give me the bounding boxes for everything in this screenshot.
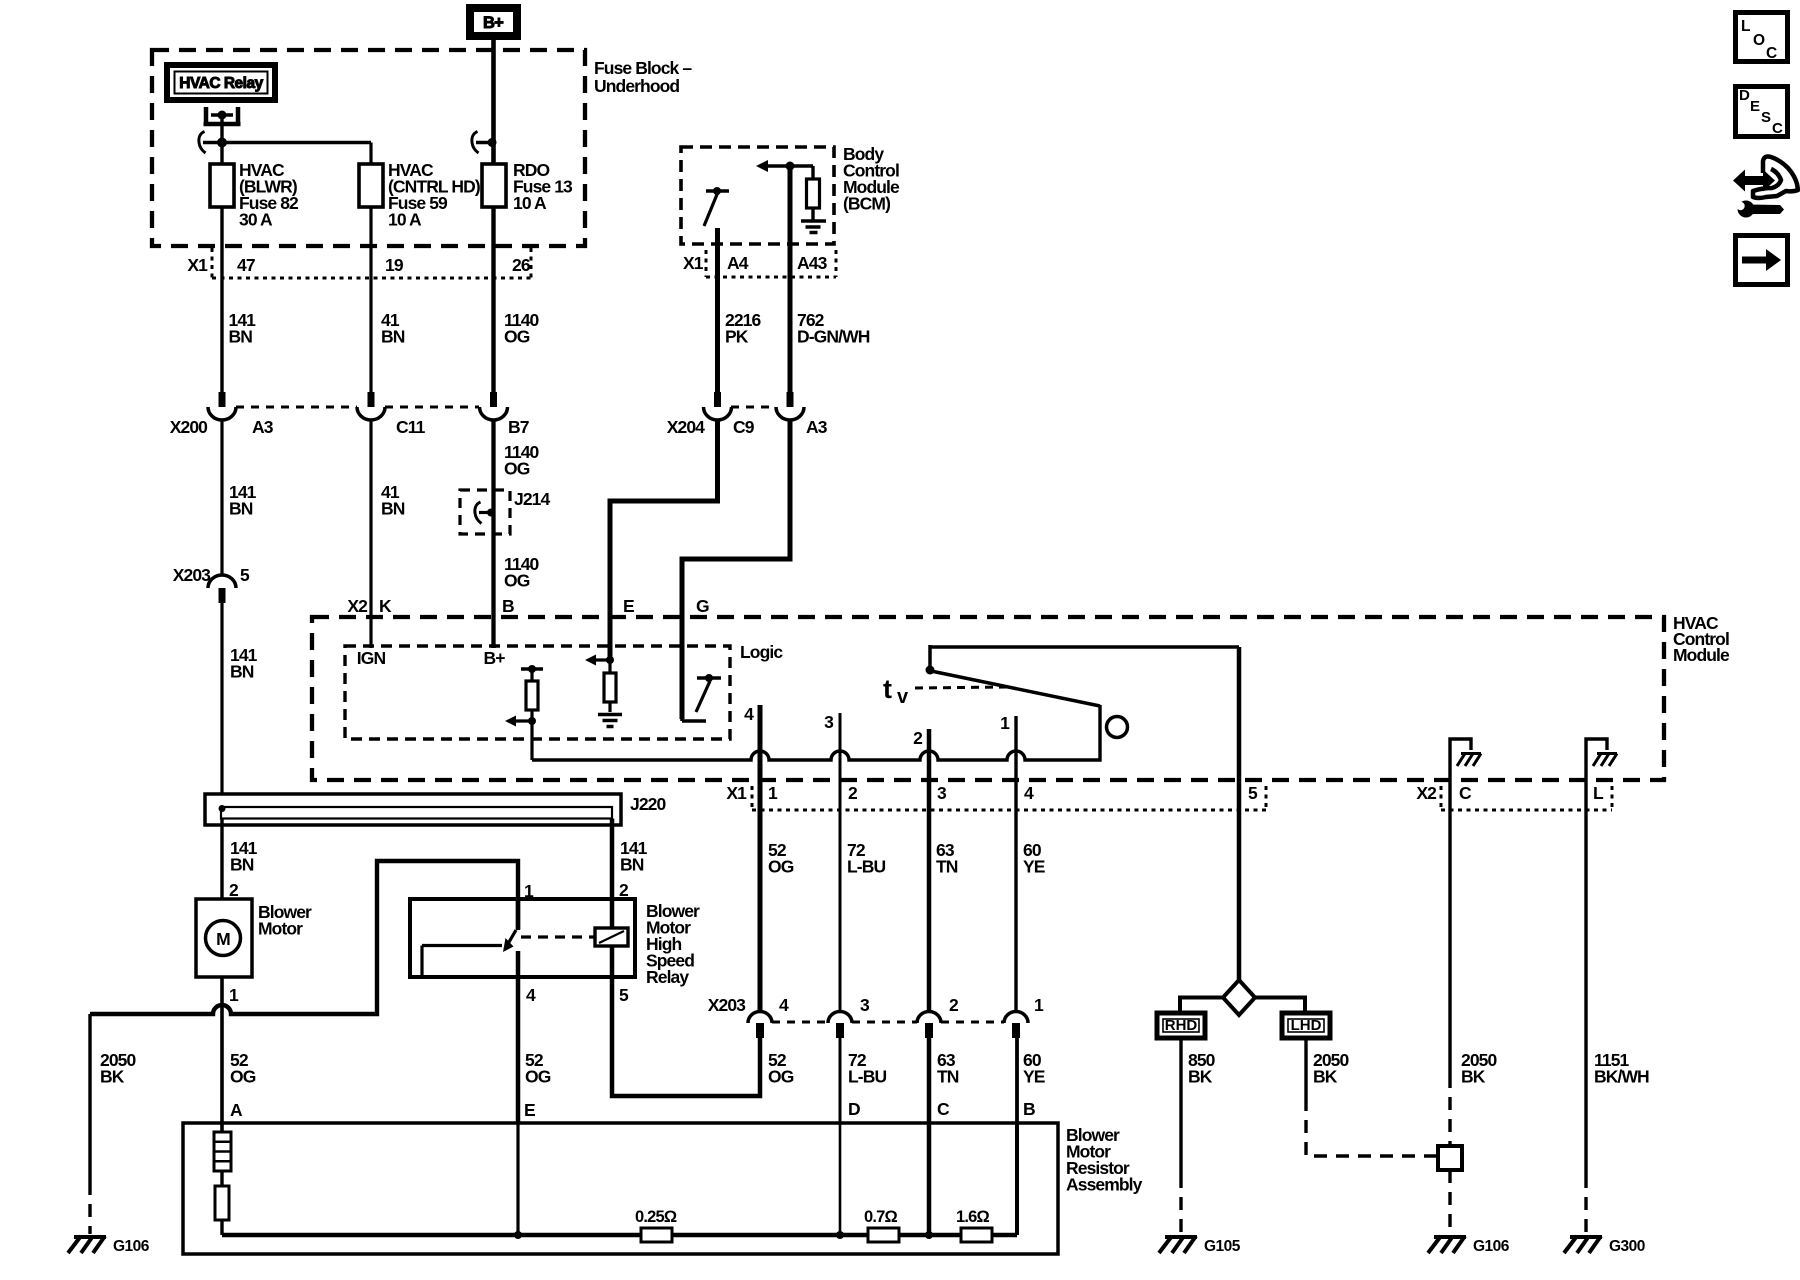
svg-text:C: C [1459,783,1472,803]
svg-text:Motor: Motor [258,919,303,939]
svg-text:PK: PK [725,327,749,347]
svg-text:OG: OG [504,327,530,347]
svg-text:Fuse Block –: Fuse Block – [594,58,692,78]
svg-text:D-GN/WH: D-GN/WH [797,327,870,347]
svg-text:M: M [216,929,230,949]
svg-text:2: 2 [949,995,959,1015]
svg-text:OG: OG [504,571,530,591]
svg-text:OG: OG [230,1067,256,1087]
svg-text:BN: BN [230,662,254,682]
svg-text:HVAC Relay: HVAC Relay [179,75,263,92]
svg-text:X2: X2 [347,596,368,616]
svg-text:C: C [1772,120,1783,137]
svg-text:3: 3 [937,783,947,803]
svg-text:C: C [937,1099,950,1119]
svg-text:D: D [1739,87,1750,104]
svg-text:BN: BN [620,855,644,875]
svg-text:26: 26 [512,255,531,275]
svg-text:B+: B+ [483,648,505,668]
svg-text:1: 1 [1000,713,1010,733]
svg-text:2: 2 [229,880,239,900]
svg-text:E: E [623,596,634,616]
svg-text:30 A: 30 A [239,210,273,230]
svg-text:5: 5 [619,985,629,1005]
svg-text:X1: X1 [683,253,704,273]
svg-text:1: 1 [768,783,778,803]
svg-text:S: S [1761,109,1771,126]
svg-text:A4: A4 [727,253,749,273]
svg-text:4: 4 [744,704,754,724]
svg-text:K: K [379,596,392,616]
svg-text:L-BU: L-BU [847,857,885,877]
svg-text:TN: TN [937,1067,959,1087]
svg-text:C9: C9 [733,417,755,437]
svg-text:1: 1 [1034,995,1044,1015]
svg-text:X203: X203 [173,565,211,585]
svg-text:X203: X203 [708,995,746,1015]
svg-text:G106: G106 [113,1238,150,1255]
svg-text:10 A: 10 A [513,193,547,213]
svg-text:5: 5 [1248,783,1258,803]
svg-text:OG: OG [504,459,530,479]
svg-text:BK: BK [1461,1067,1486,1087]
svg-text:BN: BN [229,327,253,347]
svg-text:19: 19 [385,255,404,275]
svg-text:X1: X1 [726,783,747,803]
svg-text:G300: G300 [1609,1238,1645,1255]
svg-text:G: G [696,596,709,616]
svg-text:t: t [883,674,892,704]
svg-text:BK: BK [1188,1067,1213,1087]
svg-text:10 A: 10 A [388,210,422,230]
svg-text:BK/WH: BK/WH [1594,1067,1649,1087]
svg-text:47: 47 [237,255,255,275]
svg-text:4: 4 [526,985,536,1005]
svg-text:L: L [1741,18,1750,35]
svg-text:YE: YE [1023,857,1045,877]
svg-text:BN: BN [381,499,405,519]
svg-text:3: 3 [860,995,870,1015]
svg-text:Logic: Logic [740,642,783,662]
svg-text:2: 2 [848,783,858,803]
svg-text:L-BU: L-BU [848,1067,886,1087]
svg-text:OG: OG [768,857,794,877]
svg-text:B: B [502,596,514,616]
svg-text:E: E [1750,98,1760,115]
svg-text:RHD: RHD [1165,1017,1198,1034]
svg-text:G106: G106 [1473,1238,1510,1255]
svg-text:A: A [230,1100,243,1120]
svg-text:5: 5 [240,565,250,585]
svg-text:C11: C11 [396,417,426,437]
svg-text:2: 2 [913,728,923,748]
svg-text:1: 1 [229,985,239,1005]
svg-text:G105: G105 [1204,1238,1241,1255]
svg-text:3: 3 [824,712,834,732]
svg-text:A43: A43 [797,253,828,273]
svg-text:OG: OG [525,1067,551,1087]
svg-text:TN: TN [936,857,958,877]
svg-text:X204: X204 [667,417,705,437]
svg-text:Relay: Relay [646,967,689,987]
svg-text:v: v [897,686,909,708]
svg-text:Module: Module [1673,645,1730,665]
svg-text:BN: BN [230,855,254,875]
svg-text:J220: J220 [630,794,666,814]
svg-text:BN: BN [229,499,253,519]
svg-text:J214: J214 [514,489,550,509]
svg-text:0.7Ω: 0.7Ω [864,1208,898,1226]
svg-text:C: C [1766,45,1777,62]
svg-text:BN: BN [381,327,405,347]
svg-text:1: 1 [524,881,534,901]
svg-text:B+: B+ [483,14,503,32]
svg-text:0.25Ω: 0.25Ω [635,1208,677,1226]
svg-text:X2: X2 [1416,783,1437,803]
svg-text:YE: YE [1023,1067,1045,1087]
svg-text:(BCM): (BCM) [843,194,890,214]
svg-text:IGN: IGN [357,648,386,668]
svg-text:Underhood: Underhood [594,76,679,96]
svg-text:L: L [1593,783,1604,803]
svg-text:BK: BK [100,1067,125,1087]
svg-text:Assembly: Assembly [1066,1175,1143,1195]
svg-text:E: E [524,1100,535,1120]
svg-text:A3: A3 [806,417,828,437]
svg-text:BK: BK [1313,1067,1338,1087]
svg-text:B: B [1023,1099,1035,1119]
svg-text:OG: OG [768,1067,794,1087]
svg-text:4: 4 [1024,783,1034,803]
svg-text:LHD: LHD [1291,1017,1322,1034]
svg-text:X1: X1 [187,255,208,275]
svg-text:D: D [848,1099,860,1119]
svg-text:X200: X200 [170,417,208,437]
svg-text:4: 4 [779,995,789,1015]
svg-text:A3: A3 [252,417,274,437]
svg-text:B7: B7 [508,417,529,437]
svg-text:O: O [1753,32,1765,49]
svg-text:1.6Ω: 1.6Ω [956,1208,990,1226]
